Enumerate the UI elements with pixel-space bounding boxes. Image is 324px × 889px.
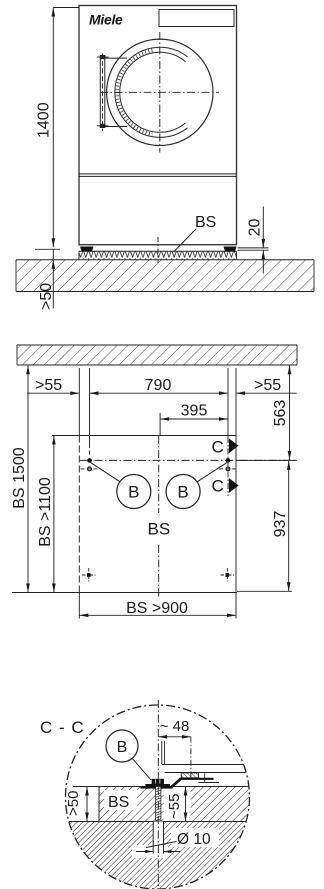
svg-text:BS: BS bbox=[148, 520, 171, 539]
svg-text:790: 790 bbox=[145, 377, 172, 394]
svg-text:>50: >50 bbox=[65, 791, 82, 816]
front view: plinth separation lines bbox=[79, 174, 237, 177]
detail view content clipped to circle bbox=[63, 741, 258, 889]
dimension BS 1500 bbox=[11, 365, 30, 592]
front view: right foot bbox=[224, 247, 237, 252]
dimension Ø 10 bbox=[136, 831, 211, 853]
svg-text:C: C bbox=[212, 477, 224, 496]
svg-text:20: 20 bbox=[247, 219, 264, 237]
detail view boundary circle bbox=[66, 705, 250, 889]
front view: door inner ring arc r45 bbox=[115, 47, 188, 137]
front view: hinge top pin bbox=[97, 55, 109, 59]
front view: hinge tabs bbox=[105, 58, 127, 126]
plate corner cross right bbox=[221, 568, 235, 582]
dimension BS >1100 bbox=[37, 436, 56, 593]
svg-text:BS 1500: BS 1500 bbox=[11, 447, 28, 508]
svg-text:563: 563 bbox=[272, 400, 289, 427]
svg-text:B: B bbox=[128, 483, 139, 502]
detail: fixing bracket Z profile bbox=[141, 779, 214, 789]
callout circle B (detail) bbox=[106, 730, 151, 780]
svg-text:1400: 1400 bbox=[36, 102, 53, 138]
plan view: extension lines bbox=[79, 368, 236, 456]
front view: door glass arc r40 bbox=[120, 52, 186, 132]
front view: machine bottom centerline bbox=[157, 237, 159, 263]
dimension >50 (detail) bbox=[65, 787, 89, 822]
detail: anchor nut and washer bbox=[145, 779, 170, 787]
front view: left foot bbox=[80, 247, 94, 252]
section marker C top bbox=[212, 438, 239, 457]
front view: door horizontal centerline bbox=[100, 91, 219, 93]
detail: floor below bbox=[63, 822, 258, 889]
front view: door vertical centerline bbox=[159, 32, 161, 153]
front view: door seal textured arc bbox=[117, 50, 152, 134]
plan view: section line C-C vertical bbox=[227, 437, 229, 496]
dimension 20 (base plate thickness) bbox=[238, 207, 269, 274]
detail: BS slab hatched bbox=[99, 787, 254, 822]
BS label with leader (front view) bbox=[174, 214, 216, 252]
svg-text:937: 937 bbox=[272, 511, 289, 538]
dimension 1400 bbox=[35, 8, 79, 250]
dimension ~48 bbox=[158, 718, 191, 780]
dimension 790 bbox=[90, 377, 229, 395]
front view: door outer circle bbox=[107, 39, 213, 145]
dimension >50 (floor) bbox=[38, 249, 55, 310]
svg-text:C: C bbox=[212, 438, 224, 457]
front view: hinge bottom pin bbox=[97, 124, 109, 128]
svg-text:>55: >55 bbox=[254, 377, 281, 394]
plate corner cross left bbox=[82, 568, 96, 582]
svg-text:BS: BS bbox=[195, 214, 216, 231]
front view: floor slab hatched bbox=[16, 260, 314, 292]
dimension 563 bbox=[236, 365, 297, 460]
dimension >55 left bbox=[27, 377, 79, 395]
plan view: BS plate outline bbox=[12, 436, 237, 593]
plan view: wall hatched bbox=[17, 345, 297, 365]
svg-text:B: B bbox=[177, 483, 188, 502]
svg-text:~ 48: ~ 48 bbox=[160, 718, 190, 735]
detail: drill hole bbox=[153, 822, 163, 854]
section marker C bottom bbox=[212, 477, 239, 496]
svg-text:C - C: C - C bbox=[40, 718, 85, 737]
svg-text:B: B bbox=[117, 739, 128, 756]
svg-text:Miele: Miele bbox=[89, 12, 123, 28]
dimension BS >900 bbox=[79, 593, 236, 619]
front view: machine cabinet outline bbox=[79, 6, 237, 245]
plan view: plate vertical centerline bbox=[158, 436, 160, 599]
svg-text:~55: ~55 bbox=[166, 794, 183, 819]
detail: machine fixing bolt (hatched) bbox=[181, 773, 198, 778]
dimension 937 bbox=[237, 461, 292, 591]
plan view: anchor axis centerline bbox=[80, 459, 297, 461]
front view: BS base plate strip hatched bbox=[79, 251, 237, 260]
svg-text:BS >1100: BS >1100 bbox=[37, 477, 54, 547]
front view: door hinge bar bbox=[100, 54, 105, 132]
svg-text:BS >900: BS >900 bbox=[126, 600, 188, 617]
svg-text:395: 395 bbox=[181, 403, 208, 420]
svg-text:>50: >50 bbox=[38, 283, 55, 310]
svg-text:>55: >55 bbox=[35, 377, 62, 394]
svg-text:BS: BS bbox=[108, 794, 129, 811]
detail: vertical centerline bbox=[157, 700, 159, 888]
dimension ~55 bbox=[166, 787, 187, 822]
right anchor point bbox=[219, 458, 237, 471]
left anchor point bbox=[81, 458, 99, 471]
dimension >55 right bbox=[236, 377, 297, 395]
svg-text:Ø 10: Ø 10 bbox=[177, 831, 211, 848]
dimension 395 bbox=[160, 403, 228, 436]
callout circle B right bbox=[166, 462, 227, 508]
callout circle B left bbox=[90, 462, 151, 508]
front view: control display panel bbox=[159, 10, 234, 27]
detail: machine floor panel lines bbox=[162, 741, 246, 783]
detail: anchor threaded rod bbox=[156, 787, 161, 822]
